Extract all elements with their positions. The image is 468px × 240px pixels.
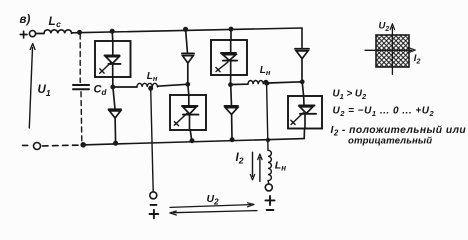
svg-text:U1: U1 — [38, 84, 51, 98]
svg-text:I2: I2 — [236, 152, 244, 166]
svg-text:U1 > U2: U1 > U2 — [333, 88, 368, 101]
svg-text:Lc: Lc — [49, 16, 62, 29]
svg-text:U2: U2 — [379, 20, 390, 33]
svg-text:в): в) — [20, 14, 31, 26]
svg-text:Lн: Lн — [275, 160, 286, 173]
svg-text:Lн: Lн — [147, 71, 158, 83]
svg-text:Lн: Lн — [260, 65, 271, 77]
svg-text:Cd: Cd — [94, 84, 108, 98]
svg-text:отрицательный: отрицательный — [348, 136, 432, 147]
svg-text:U2: U2 — [207, 193, 220, 207]
svg-text:U2 = −U1 ... 0 ... +U2: U2 = −U1 ... 0 ... +U2 — [333, 106, 435, 119]
svg-text:I2: I2 — [414, 53, 421, 66]
